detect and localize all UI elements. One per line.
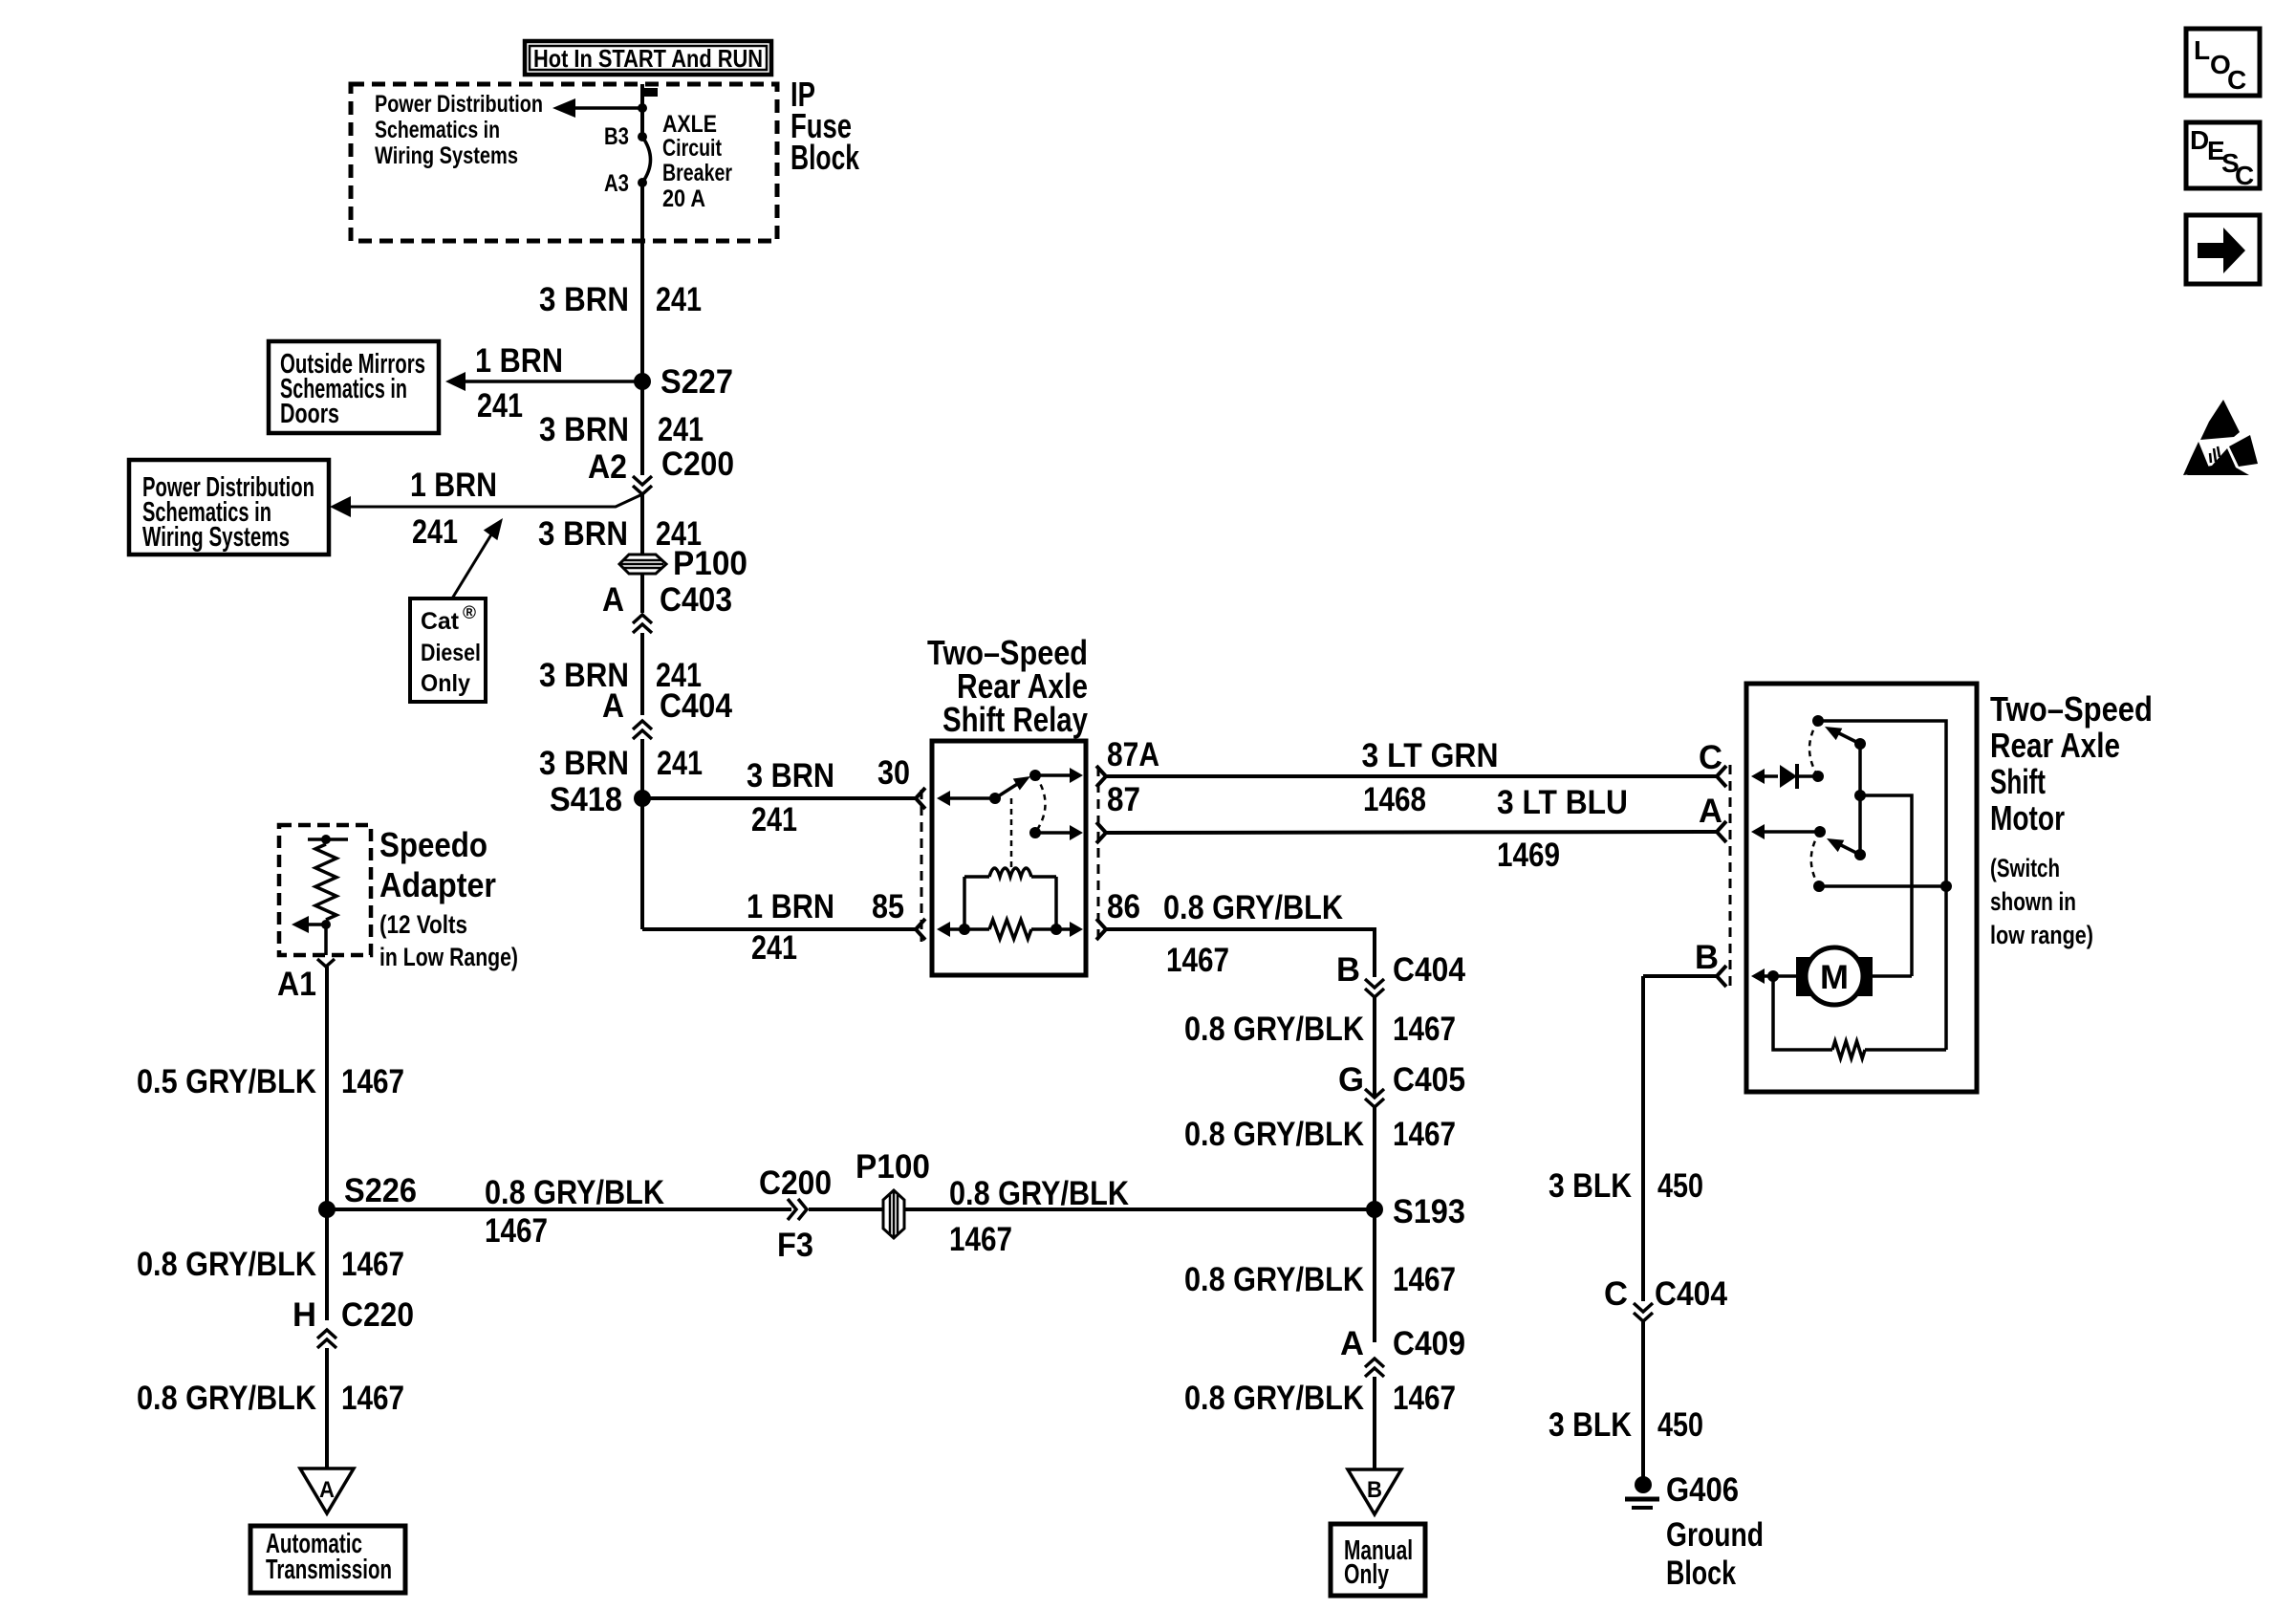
svg-text:B: B bbox=[1336, 951, 1360, 989]
svg-text:1 BRN: 1 BRN bbox=[475, 342, 563, 380]
svg-text:3 BLK: 3 BLK bbox=[1549, 1406, 1632, 1444]
svg-text:Hot In START And RUN: Hot In START And RUN bbox=[533, 44, 763, 73]
svg-text:Motor: Motor bbox=[1990, 798, 2065, 838]
svg-text:C200: C200 bbox=[661, 446, 734, 483]
svg-text:A: A bbox=[602, 581, 624, 619]
svg-text:Only: Only bbox=[421, 670, 470, 697]
svg-text:86: 86 bbox=[1107, 888, 1140, 925]
svg-text:0.8 GRY/BLK: 0.8 GRY/BLK bbox=[1163, 889, 1343, 926]
svg-text:241: 241 bbox=[412, 513, 458, 551]
svg-text:C403: C403 bbox=[660, 581, 732, 619]
svg-text:Speedo: Speedo bbox=[379, 825, 487, 864]
svg-text:0.8 GRY/BLK: 0.8 GRY/BLK bbox=[137, 1380, 316, 1417]
svg-text:C404: C404 bbox=[1655, 1275, 1727, 1313]
svg-text:3 BRN: 3 BRN bbox=[539, 745, 629, 782]
svg-text:3 BRN: 3 BRN bbox=[539, 281, 629, 318]
svg-text:C200: C200 bbox=[759, 1164, 832, 1202]
svg-text:C404: C404 bbox=[660, 687, 732, 725]
svg-text:87: 87 bbox=[1107, 781, 1140, 818]
svg-text:B: B bbox=[1367, 1477, 1382, 1503]
svg-text:A: A bbox=[1340, 1325, 1364, 1362]
svg-text:C405: C405 bbox=[1393, 1061, 1465, 1099]
svg-text:S227: S227 bbox=[661, 363, 733, 401]
svg-text:low range): low range) bbox=[1990, 921, 2093, 949]
svg-text:3 BLK: 3 BLK bbox=[1549, 1167, 1632, 1205]
svg-text:Two–Speed: Two–Speed bbox=[1990, 689, 2153, 729]
svg-text:Wiring Systems: Wiring Systems bbox=[375, 142, 518, 169]
svg-text:87A: 87A bbox=[1107, 736, 1159, 773]
svg-text:C220: C220 bbox=[341, 1296, 414, 1334]
svg-text:3 LT BLU: 3 LT BLU bbox=[1497, 784, 1628, 821]
svg-text:S193: S193 bbox=[1393, 1193, 1465, 1230]
svg-text:L: L bbox=[2194, 35, 2210, 65]
svg-text:A: A bbox=[602, 687, 624, 725]
svg-text:Ground: Ground bbox=[1666, 1516, 1764, 1554]
svg-text:241: 241 bbox=[751, 801, 797, 838]
svg-text:A: A bbox=[1699, 793, 1722, 830]
svg-text:C: C bbox=[2227, 65, 2246, 95]
svg-text:®: ® bbox=[463, 603, 476, 623]
svg-text:1467: 1467 bbox=[485, 1212, 548, 1250]
svg-text:450: 450 bbox=[1657, 1406, 1703, 1444]
svg-text:AXLE: AXLE bbox=[662, 111, 717, 138]
svg-text:0.8 GRY/BLK: 0.8 GRY/BLK bbox=[949, 1175, 1129, 1212]
svg-text:450: 450 bbox=[1657, 1167, 1703, 1205]
svg-text:Wiring Systems: Wiring Systems bbox=[142, 522, 290, 553]
svg-text:Power Distribution: Power Distribution bbox=[375, 91, 543, 118]
svg-text:(12 Volts: (12 Volts bbox=[379, 910, 467, 939]
svg-text:C: C bbox=[2235, 161, 2254, 190]
svg-text:P100: P100 bbox=[856, 1148, 930, 1186]
svg-text:B3: B3 bbox=[604, 123, 629, 150]
svg-text:3 BRN: 3 BRN bbox=[539, 411, 629, 448]
svg-text:C: C bbox=[1699, 739, 1722, 776]
svg-text:Breaker: Breaker bbox=[662, 160, 732, 186]
svg-text:1469: 1469 bbox=[1497, 837, 1560, 874]
svg-text:0.5 GRY/BLK: 0.5 GRY/BLK bbox=[137, 1063, 316, 1100]
svg-text:Shift: Shift bbox=[1990, 762, 2046, 801]
svg-text:85: 85 bbox=[872, 888, 904, 925]
svg-text:A: A bbox=[319, 1477, 335, 1503]
svg-text:A3: A3 bbox=[604, 170, 629, 197]
svg-text:A1: A1 bbox=[277, 966, 316, 1003]
svg-text:S418: S418 bbox=[550, 781, 622, 818]
svg-text:C: C bbox=[1604, 1275, 1628, 1313]
svg-text:Circuit: Circuit bbox=[662, 135, 723, 162]
svg-text:1467: 1467 bbox=[1166, 942, 1229, 979]
svg-text:C404: C404 bbox=[1393, 951, 1465, 989]
svg-text:G: G bbox=[1338, 1061, 1364, 1099]
svg-text:1467: 1467 bbox=[341, 1246, 404, 1283]
svg-text:M: M bbox=[1820, 959, 1849, 996]
svg-text:shown in: shown in bbox=[1990, 887, 2076, 916]
svg-text:1467: 1467 bbox=[1393, 1116, 1456, 1153]
svg-text:1467: 1467 bbox=[1393, 1261, 1456, 1298]
svg-text:1467: 1467 bbox=[1393, 1380, 1456, 1417]
svg-text:H: H bbox=[292, 1296, 316, 1334]
svg-text:Transmission: Transmission bbox=[266, 1555, 392, 1585]
svg-text:0.8 GRY/BLK: 0.8 GRY/BLK bbox=[1184, 1116, 1364, 1153]
svg-text:Diesel: Diesel bbox=[421, 640, 481, 666]
svg-text:1468: 1468 bbox=[1363, 781, 1426, 818]
svg-text:3 BRN: 3 BRN bbox=[538, 515, 628, 553]
svg-text:0.8 GRY/BLK: 0.8 GRY/BLK bbox=[1184, 1380, 1364, 1417]
svg-text:F3: F3 bbox=[777, 1227, 813, 1264]
svg-text:0.8 GRY/BLK: 0.8 GRY/BLK bbox=[485, 1174, 664, 1211]
svg-text:Block: Block bbox=[791, 138, 860, 177]
svg-text:Adapter: Adapter bbox=[379, 865, 496, 904]
svg-text:S226: S226 bbox=[344, 1172, 417, 1209]
svg-text:1467: 1467 bbox=[341, 1380, 404, 1417]
svg-text:in Low Range): in Low Range) bbox=[379, 943, 518, 971]
svg-text:20 A: 20 A bbox=[662, 185, 705, 212]
svg-text:241: 241 bbox=[656, 281, 702, 318]
svg-text:Cat: Cat bbox=[421, 608, 460, 635]
svg-text:Shift Relay: Shift Relay bbox=[942, 700, 1088, 739]
svg-text:0.8 GRY/BLK: 0.8 GRY/BLK bbox=[1184, 1011, 1364, 1048]
svg-text:30: 30 bbox=[877, 754, 910, 792]
svg-text:1 BRN: 1 BRN bbox=[410, 467, 497, 504]
svg-text:Schematics in: Schematics in bbox=[375, 117, 500, 143]
svg-text:1467: 1467 bbox=[1393, 1011, 1456, 1048]
svg-text:Block: Block bbox=[1666, 1555, 1736, 1592]
svg-text:Doors: Doors bbox=[280, 399, 339, 429]
svg-text:Only: Only bbox=[1344, 1559, 1389, 1590]
svg-text:A2: A2 bbox=[588, 448, 627, 486]
svg-text:241: 241 bbox=[477, 387, 523, 424]
svg-text:Rear Axle: Rear Axle bbox=[1990, 726, 2120, 765]
svg-text:3 BRN: 3 BRN bbox=[747, 757, 834, 794]
svg-text:241: 241 bbox=[657, 745, 703, 782]
svg-text:B: B bbox=[1695, 939, 1719, 976]
svg-text:C409: C409 bbox=[1393, 1325, 1465, 1362]
svg-text:P100: P100 bbox=[673, 545, 747, 582]
svg-text:0.8 GRY/BLK: 0.8 GRY/BLK bbox=[1184, 1261, 1364, 1298]
svg-text:241: 241 bbox=[658, 411, 704, 448]
svg-text:0.8 GRY/BLK: 0.8 GRY/BLK bbox=[137, 1246, 316, 1283]
svg-text:241: 241 bbox=[751, 929, 797, 967]
svg-text:3 LT GRN: 3 LT GRN bbox=[1362, 737, 1499, 774]
svg-text:1 BRN: 1 BRN bbox=[747, 888, 834, 925]
svg-text:1467: 1467 bbox=[341, 1063, 404, 1100]
svg-text:G406: G406 bbox=[1666, 1471, 1739, 1509]
svg-text:1467: 1467 bbox=[949, 1221, 1012, 1258]
svg-text:(Switch: (Switch bbox=[1990, 854, 2060, 882]
